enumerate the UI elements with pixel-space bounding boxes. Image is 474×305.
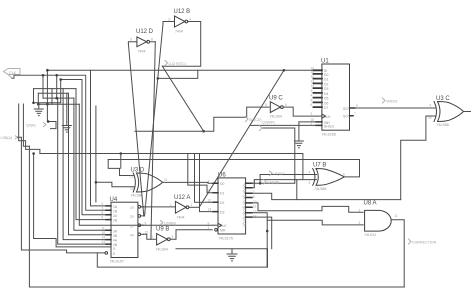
node dot 48.2 121.5 <box>47 120 50 123</box>
U4 enable pin bubble <box>105 252 108 255</box>
svg-text:D5: D5 <box>324 97 328 101</box>
svg-text:D7: D7 <box>324 106 328 110</box>
wire U6 D2 feed <box>195 154 214 203</box>
net label U9(CD) upper <box>270 171 286 176</box>
svg-text:4: 4 <box>311 94 313 98</box>
svg-text:11: 11 <box>253 205 257 209</box>
wire Q1 to long feedback rail <box>252 193 401 199</box>
svg-text:4Y: 4Y <box>130 233 135 237</box>
svg-text:5: 5 <box>309 181 311 185</box>
svg-text:3B: 3B <box>113 234 118 238</box>
svg-text:2: 2 <box>191 203 193 207</box>
U1 pin numbers <box>311 66 359 125</box>
wire U12B output feedback box <box>162 22 200 67</box>
svg-text:9: 9 <box>145 221 147 225</box>
wire diagonal U12A output to U1 S wire <box>199 70 284 207</box>
ground G1 <box>34 104 43 115</box>
svg-text:1: 1 <box>170 203 172 207</box>
wire U4 4Y to U9B input <box>144 234 156 239</box>
net label U9(NR) <box>161 221 177 226</box>
wire U1 SO to U3C <box>355 107 433 109</box>
net label CAD(S) lower <box>264 180 280 185</box>
wire U8A output to bottom bus <box>391 220 404 287</box>
wire U12D input from below <box>128 42 137 44</box>
ground G3 <box>227 249 237 261</box>
svg-text:U12 R(TC): U12 R(TC) <box>169 62 186 66</box>
svg-text:12: 12 <box>311 75 315 79</box>
svg-text:5: 5 <box>311 99 313 103</box>
svg-text:74LS86: 74LS86 <box>131 194 143 198</box>
ground G4 <box>294 141 303 148</box>
svg-text:9: 9 <box>430 104 432 108</box>
net label Q9(A) <box>26 123 46 128</box>
xor gate U7B <box>309 163 346 192</box>
svg-text:2: 2 <box>359 209 361 213</box>
svg-text:D2: D2 <box>220 201 224 205</box>
wire U4 1Y to U12A input <box>141 206 176 208</box>
wire net top H1 y=70.2 <box>47 69 316 71</box>
svg-text:5: 5 <box>208 189 210 193</box>
wire bus y=152.8 to U6 D inputs <box>40 154 303 180</box>
svg-text:3: 3 <box>151 235 153 239</box>
wire diagonal from feedback box corner to node <box>162 66 203 131</box>
svg-text:U12 A: U12 A <box>174 195 190 201</box>
svg-text:10: 10 <box>102 231 106 235</box>
wire diagonal U12B input line down to U4 pin 1Y <box>145 24 164 216</box>
svg-text:CLK: CLK <box>9 71 17 75</box>
inverter U12A <box>170 195 193 220</box>
wire long select line to U6 CLK crossing U4 <box>79 104 213 225</box>
svg-text:14: 14 <box>253 215 257 219</box>
node dot 95.9 182.3 <box>95 181 98 184</box>
svg-text:Q9(MR): Q9(MR) <box>262 121 275 125</box>
svg-text:U9(NR): U9(NR) <box>164 221 176 225</box>
svg-text:D1: D1 <box>324 78 328 82</box>
and gate U8A <box>359 201 399 238</box>
U1 left pin stubs <box>314 70 322 107</box>
U6 pin numbers <box>208 179 257 230</box>
node dot x=60.7 y=79.5 <box>59 78 62 81</box>
wire step B into bottom loop <box>23 104 29 146</box>
svg-text:SH/LD: SH/LD <box>324 125 335 129</box>
svg-text:4: 4 <box>145 203 147 207</box>
svg-text:U1: U1 <box>321 59 329 65</box>
svg-text:3Y: 3Y <box>130 224 135 228</box>
svg-text:D3: D3 <box>324 87 328 91</box>
IC U1 <box>321 59 350 137</box>
svg-text:14: 14 <box>311 84 315 88</box>
node dot 33.6 152.8 <box>32 152 35 155</box>
svg-text:U6: U6 <box>218 173 226 179</box>
svg-text:7404: 7404 <box>138 50 146 54</box>
wire net top H2 y=75.3 <box>12 75 106 210</box>
U4 internal pin labels <box>113 205 135 256</box>
svg-text:D3: D3 <box>220 211 224 215</box>
U1 lower pin stubs <box>316 122 322 126</box>
svg-text:12: 12 <box>130 175 134 179</box>
svg-text:10: 10 <box>428 116 432 120</box>
U4 left pin stubs <box>106 206 111 244</box>
svg-text:SO: SO <box>343 115 348 119</box>
svg-text:74LS86: 74LS86 <box>314 187 326 191</box>
svg-text:U9(CD): U9(CD) <box>273 172 285 176</box>
svg-text:U7 B: U7 B <box>313 163 326 169</box>
net flag LSB(A) <box>1 136 18 140</box>
svg-text:U3 D: U3 D <box>131 168 145 174</box>
node dot x=47.4 y=70.2 <box>46 69 49 72</box>
wire Q3bar to ground rail <box>252 217 272 249</box>
svg-text:U8 A: U8 A <box>364 201 377 207</box>
svg-text:CAD(S): CAD(S) <box>267 181 279 185</box>
node dot x=43 y=75.3 <box>42 74 45 77</box>
wire U6 D3 feed <box>200 154 214 212</box>
wire vertical x=73.9 to U4 pin 3A <box>74 98 106 230</box>
wire vertical x=108.2 feed to U3D top input <box>108 160 134 176</box>
svg-text:1A: 1A <box>113 205 118 209</box>
wire vertical x=57.7 to U4 pin 4B <box>58 98 106 244</box>
svg-text:D6: D6 <box>324 101 328 105</box>
wire U9B output to U6 MR <box>170 230 212 240</box>
node dot x=38.3 y=104.2 <box>37 103 40 106</box>
wire mesh vertical x=38.3 <box>37 93 39 104</box>
svg-text:3: 3 <box>359 221 361 225</box>
wire U1 SH/LD feed <box>250 124 316 126</box>
svg-text:4: 4 <box>189 18 191 22</box>
wire mesh rail y=102.8 <box>34 102 61 104</box>
wire U12D output stub <box>150 41 156 43</box>
node dot 283.9 70.3 <box>283 69 286 72</box>
net label SH(CD) <box>246 117 262 122</box>
wire corner H1 down <box>91 70 107 206</box>
wire mesh vertical x=43 <box>42 75 44 98</box>
svg-text:3: 3 <box>102 206 104 210</box>
svg-text:14: 14 <box>102 236 106 240</box>
svg-text:D0: D0 <box>220 182 224 186</box>
wire U3D output to U6 D0 <box>163 181 213 184</box>
svg-text:4: 4 <box>172 235 174 239</box>
U1 right pin stubs <box>350 108 355 116</box>
svg-text:D4: D4 <box>324 92 328 96</box>
wire Q0 continues right up to Q(MR) flag <box>260 128 295 183</box>
svg-text:11: 11 <box>311 70 315 74</box>
node dot on branch <box>157 77 160 80</box>
svg-text:7: 7 <box>145 212 147 216</box>
svg-text:U12 D: U12 D <box>136 29 154 35</box>
svg-text:VRD01: VRD01 <box>386 100 398 104</box>
svg-text:2: 2 <box>102 202 104 206</box>
svg-text:74LS11: 74LS11 <box>364 233 376 237</box>
wire ground drop x=298.9 <box>298 122 300 141</box>
svg-text:7404: 7404 <box>177 216 185 220</box>
wire U12A output <box>189 206 199 208</box>
svg-text:MR: MR <box>220 229 226 233</box>
svg-text:2B: 2B <box>113 219 118 223</box>
svg-text:U9 B: U9 B <box>156 227 169 233</box>
svg-text:3A: 3A <box>113 229 118 233</box>
net label Q(MR) <box>260 121 275 131</box>
svg-text:74LS175: 74LS175 <box>219 236 233 240</box>
wire vertical x=95.9 feed to U3D bottom input <box>95 106 97 202</box>
svg-text:74LS86: 74LS86 <box>437 123 449 127</box>
U1 internal labels <box>324 69 348 129</box>
svg-text:1B: 1B <box>113 209 118 213</box>
wire U12B input stub <box>163 22 175 25</box>
wire Q0 to U7B upper input <box>252 175 317 184</box>
svg-text:6: 6 <box>285 103 287 107</box>
svg-text:SH(CD): SH(CD) <box>249 118 262 122</box>
wire mesh vertical x=56.7 <box>56 75 58 98</box>
svg-text:U3 C: U3 C <box>436 96 450 102</box>
node dot x=56.7 y=75.3 <box>55 74 58 77</box>
svg-text:1: 1 <box>208 226 210 230</box>
node dot 267.2 231 <box>266 230 269 233</box>
wire LSB flag to U4 E pin <box>18 137 105 253</box>
svg-text:13: 13 <box>208 208 212 212</box>
svg-text:3: 3 <box>168 18 170 22</box>
svg-text:2Y: 2Y <box>130 215 135 219</box>
svg-text:74LS157: 74LS157 <box>110 260 124 264</box>
svg-text:CORRECTION: CORRECTION <box>412 241 437 245</box>
net label VRD01 <box>383 98 398 104</box>
wire node to U9C input <box>204 107 269 131</box>
node dot 203.6 131.2 <box>202 130 205 133</box>
wire feedback rail up to U3C lower input <box>401 116 433 200</box>
wire mesh vertical x=60.7 <box>60 80 62 103</box>
U1 CLK pin triangle <box>322 114 326 118</box>
U1 CLK stub <box>316 115 322 117</box>
svg-text:74LS04: 74LS04 <box>270 115 282 119</box>
U4 pin numbers <box>102 202 149 244</box>
wire U9C output to U1 CLK <box>283 107 316 116</box>
svg-text:3: 3 <box>311 89 313 93</box>
svg-text:9: 9 <box>130 38 132 42</box>
svg-text:11: 11 <box>102 226 106 230</box>
svg-text:11: 11 <box>395 214 399 218</box>
wire node horizontal y=131.2 <box>135 130 204 132</box>
xor gate U3D <box>130 168 168 198</box>
wire Q0bar to U7B lower input <box>252 180 317 188</box>
wire mesh rail y=88.6 <box>34 88 77 90</box>
svg-text:74LS165: 74LS165 <box>322 133 336 137</box>
wire U7B output feedback loop <box>108 160 359 177</box>
wire hook at x=47.4 <box>47 104 56 128</box>
svg-text:Q0 Q0 Q1 Q1 Q2 Q2 Q3 Q3: Q0 Q0 Q1 Q1 Q2 Q2 Q3 Q3 <box>243 184 247 227</box>
svg-text:5: 5 <box>102 211 104 215</box>
svg-text:6: 6 <box>311 103 313 107</box>
wire mesh rail y=104.2 <box>38 103 79 105</box>
inverter U9B <box>151 227 174 252</box>
svg-text:LSB(A): LSB(A) <box>1 136 13 140</box>
svg-text:4: 4 <box>208 179 210 183</box>
IC U4 <box>110 197 138 264</box>
U6 internal labels <box>220 182 247 232</box>
svg-text:E: E <box>113 252 116 256</box>
wire Q3 branch down to ground rail <box>266 220 268 248</box>
wire ground rail under U6 <box>176 249 268 267</box>
wire U7B loop down joint <box>296 180 298 200</box>
svg-text:D2: D2 <box>324 82 328 86</box>
xor gate U3C <box>428 96 464 127</box>
wire U3C input stubs <box>433 108 436 116</box>
svg-text:S: S <box>113 247 116 251</box>
wire U1 INH pin to ground <box>299 121 316 123</box>
node dot 120.8 152.8 <box>120 152 123 155</box>
wire mesh rail y=98.1 <box>43 97 74 99</box>
input flag CLK <box>4 69 21 79</box>
node dot x=47.4 y=104.2 <box>46 103 49 106</box>
svg-text:13: 13 <box>130 187 134 191</box>
U6 right pin stubs <box>246 183 252 217</box>
ground G2 <box>62 122 71 133</box>
svg-text:D0: D0 <box>324 73 328 77</box>
wire mesh vertical x=33.5 <box>33 89 35 103</box>
svg-text:U9 C: U9 C <box>269 96 283 102</box>
wire mesh vertical x=52 <box>51 89 53 105</box>
wire step A into D bus <box>19 104 40 154</box>
U6 left pin stubs <box>213 183 218 211</box>
IC U6 <box>218 173 246 241</box>
inverter U9C <box>265 96 287 119</box>
svg-text:13: 13 <box>102 240 106 244</box>
wire U6 D1 feed <box>188 154 213 193</box>
svg-text:U4: U4 <box>110 197 118 203</box>
svg-text:4: 4 <box>309 171 311 175</box>
wire Q3 to U8A lower input <box>252 213 363 225</box>
wire branch from bus to U3D input jog <box>120 154 122 169</box>
svg-text:6: 6 <box>343 173 345 177</box>
inverter U12D <box>130 29 154 54</box>
wire diagonal U12D input line down to U4 pin 1Y <box>128 44 143 216</box>
wire U12D out branch to U1 S pin <box>158 70 198 78</box>
wire net H3 y=79.5 <box>61 80 106 215</box>
svg-text:6: 6 <box>253 195 255 199</box>
wire lower rail y=267 <box>97 249 267 267</box>
svg-text:13: 13 <box>311 80 315 84</box>
svg-text:U12 B: U12 B <box>174 9 191 15</box>
node dot x=33.5 y=102.8 <box>32 102 35 105</box>
wire mesh vertical x=47.4 <box>46 70 48 104</box>
svg-text:74LS04: 74LS04 <box>156 248 168 252</box>
svg-text:7404: 7404 <box>175 30 183 34</box>
wire mesh vertical x=66.8 to ground <box>66 93 68 121</box>
svg-text:SO: SO <box>343 107 348 111</box>
svg-text:12: 12 <box>145 230 149 234</box>
wire U3D bottom input jog <box>96 182 134 186</box>
wire vertical x=76 to U4 pin 2B <box>76 89 106 220</box>
svg-text:6: 6 <box>102 216 104 220</box>
U4 right pin stubs with bubbles <box>138 206 144 236</box>
node dot Q0 junction <box>259 182 262 185</box>
wire U3C output <box>464 111 471 113</box>
wire select S step to U4 <box>34 154 111 247</box>
svg-text:Q9(A): Q9(A) <box>26 124 36 128</box>
U6 MR bubble <box>215 229 218 232</box>
wire vertical x=63.1 to U4 pin 4A <box>63 89 106 240</box>
wire Q2 to U8A upper input <box>252 203 363 212</box>
net label CORRECTION <box>409 239 437 245</box>
node dot x=56.7 y=98.1 <box>55 97 58 100</box>
svg-text:8: 8 <box>151 38 153 42</box>
svg-text:15: 15 <box>253 210 257 214</box>
svg-text:7: 7 <box>354 112 356 116</box>
svg-text:11: 11 <box>164 178 168 182</box>
U6 CLK pin triangle <box>218 223 222 227</box>
wire vertical x=68.5 to U4 pin 3B <box>69 93 107 234</box>
wire mesh rail y=93.3 <box>38 92 68 94</box>
svg-text:9: 9 <box>208 221 210 225</box>
svg-text:5: 5 <box>265 103 267 107</box>
svg-text:4A: 4A <box>113 239 118 243</box>
net label U12 R(TC) <box>165 61 186 66</box>
wire big left loop to bottom bus <box>29 146 404 287</box>
U6 CLK stub <box>213 224 218 226</box>
wire diagonal U12D output down to U9B input <box>151 42 155 240</box>
svg-text:1Y: 1Y <box>130 206 135 210</box>
svg-text:2A: 2A <box>113 214 118 218</box>
inverter U12B <box>168 9 191 34</box>
svg-text:D1: D1 <box>220 192 224 196</box>
